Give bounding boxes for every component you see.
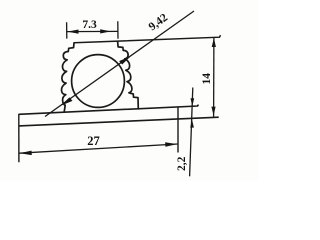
dim 14 vertical dimension line <box>213 38 215 117</box>
svg-text:2,2: 2,2 <box>176 156 188 171</box>
circular hole <box>72 55 125 108</box>
svg-text:27: 27 <box>87 134 100 148</box>
arrowhead on circle upper-right (dim 9,42) <box>120 57 130 64</box>
base plate top edge (left of body, under circle, right of body, extended right) <box>19 105 199 115</box>
dim 2,2 vertical line <box>190 88 193 177</box>
dim 27 left arrow <box>19 151 31 156</box>
dim 14 top arrow (pointing up) <box>212 38 216 47</box>
dim 2,2 upper outside arrow (pointing down at plate top ext) <box>191 98 195 106</box>
base plate bottom edge extended right as extension line B <box>19 117 219 126</box>
dim 7.3 right arrow (offset inward as in scan) <box>100 29 111 33</box>
top edge of body extended right as extension line for dim 14 <box>74 35 221 43</box>
dim 2,2 lower outside arrow (pointing up at plate bottom ext) <box>190 119 194 127</box>
base plate left edge + extension line for dim 27 <box>18 114 20 162</box>
svg-text:14: 14 <box>201 73 213 85</box>
svg-text:7.3: 7.3 <box>82 19 97 31</box>
diagonal diameter dimension line 9,42 <box>45 11 194 117</box>
dim 7.3 left extension line <box>66 22 68 38</box>
arrowhead on circle lower-left (dim 9,42) <box>62 98 72 105</box>
dim 14 bottom arrow (pointing down) <box>211 107 215 116</box>
dim 7.3 dimension line <box>67 30 118 32</box>
dim 27 dimension line <box>19 144 177 153</box>
profile body outline (scalloped block) <box>61 41 138 112</box>
dim 27 right arrow <box>165 142 177 147</box>
dim 7.3 left arrow <box>67 30 78 34</box>
dim 7.3 right extension line <box>117 21 119 39</box>
base plate right edge + extension line for dims 27 / 2.2 <box>177 107 179 152</box>
